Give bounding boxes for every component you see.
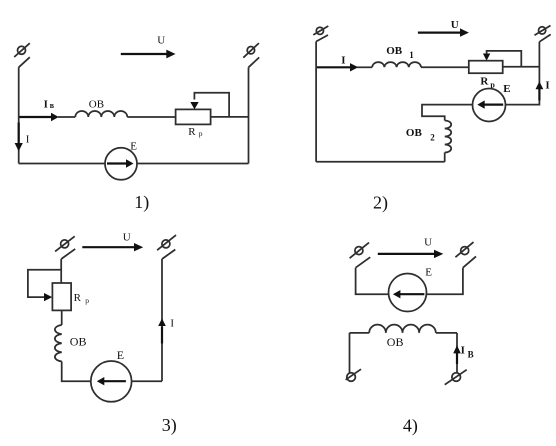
- terminal X10 (bottom-right, circle with slash): [445, 370, 467, 385]
- arrow I right c2 (upward): [538, 89, 540, 101]
- svg-text:E: E: [117, 348, 124, 362]
- svg-text:ОВ: ОВ: [406, 127, 423, 139]
- wire coil to rheostat c2: [421, 66, 469, 68]
- terminal X3 (left, circle with slash): [313, 26, 328, 35]
- generator E (armature circle with arrow): [105, 148, 137, 180]
- switch blade at X1: [19, 57, 30, 67]
- wire left branch (down from X1 to bottom-left corner): [18, 67, 20, 163]
- terminal X4 (right, circle with slash): [535, 26, 551, 36]
- svg-text:ОВ: ОВ: [387, 335, 404, 349]
- wire right branch c2: [506, 42, 540, 105]
- svg-text:р: р: [199, 129, 203, 138]
- svg-text:U: U: [157, 35, 165, 47]
- terminal X1 (left, circle with slash): [14, 43, 30, 57]
- switch blade at X4: [539, 34, 550, 41]
- wire down to terminal X10: [456, 333, 458, 373]
- svg-text:ОВ: ОВ: [70, 334, 87, 348]
- svg-text:E: E: [503, 83, 510, 95]
- svg-text:I: I: [26, 134, 30, 146]
- arrow I (downward): [18, 123, 20, 144]
- inductor ОВ c3 (vertical, 4 humps bulging left): [55, 325, 62, 361]
- wire coil to rheostat: [127, 116, 175, 118]
- wire armature to series coil ОВ2: [422, 105, 473, 121]
- switch blade at X6: [162, 250, 175, 260]
- svg-text:в: в: [50, 101, 55, 110]
- resistor Rр (rheostat body): [176, 109, 211, 124]
- wire left lead of field winding c4: [350, 332, 370, 334]
- svg-text:1: 1: [409, 50, 414, 60]
- arrow U c4: [378, 253, 435, 255]
- svg-text:I: I: [461, 344, 465, 356]
- resistor Rр c3 (vertical rheostat body): [52, 283, 71, 310]
- resistor Rр c2 (rheostat body): [469, 61, 503, 73]
- svg-text:U: U: [123, 231, 131, 243]
- svg-text:R: R: [74, 292, 82, 304]
- terminal X6 (right, circle with slash): [157, 235, 176, 250]
- svg-text:I: I: [170, 318, 174, 330]
- arrow Iв c4 (upward): [456, 353, 458, 364]
- svg-text:E: E: [425, 267, 432, 279]
- inductor ОВ2 (vertical, 4 humps bulging right): [445, 121, 452, 153]
- terminal X9 (bottom-left, circle with slash): [346, 369, 361, 381]
- generator E c3 (armature with left arrow): [91, 361, 132, 402]
- wire coil to armature c3: [62, 361, 91, 381]
- rheostat wiper arm c2: [487, 51, 522, 67]
- svg-text:2): 2): [373, 193, 388, 214]
- arrow I c3 (upward): [161, 327, 163, 344]
- arrow U c2: [418, 31, 461, 33]
- inductor ОВ1 (series winding, 4 humps): [372, 62, 421, 67]
- svg-text:I: I: [341, 54, 345, 66]
- svg-text:I: I: [44, 99, 48, 111]
- svg-text:2: 2: [430, 133, 435, 143]
- svg-text:В: В: [468, 349, 474, 359]
- wire right branch c3: [161, 259, 163, 381]
- node junction field tap: [19, 116, 20, 118]
- svg-text:ОВ: ОВ: [386, 45, 403, 57]
- terminal X8 (right, circle with slash): [455, 242, 473, 257]
- switch blade at X5: [61, 249, 75, 259]
- svg-text:E: E: [130, 140, 137, 152]
- svg-text:R: R: [188, 126, 196, 138]
- wire field to coil: [58, 116, 75, 118]
- wire left branch c2: [315, 42, 317, 162]
- inductor ОВ c4 (field winding, 4 humps): [369, 325, 436, 333]
- switch blade at X8: [463, 256, 476, 267]
- wire right branch (down from X2 to bottom-right corner): [248, 67, 250, 163]
- wire bottom right (E to corner): [137, 163, 249, 165]
- svg-text:1): 1): [134, 192, 149, 213]
- svg-text:U: U: [424, 236, 432, 248]
- terminal X7 (left, circle with slash): [350, 243, 369, 259]
- wire X8 to armature c4: [427, 268, 463, 295]
- generator E c4 (armature with left arrow): [389, 274, 427, 312]
- inductor ОВ (field winding, 4 humps): [75, 111, 127, 117]
- wire bottom c2: [316, 161, 445, 163]
- wire coil ОВ2 to bottom: [444, 153, 446, 162]
- generator E c2 (armature with left arrow): [473, 89, 506, 122]
- svg-text:U: U: [451, 19, 459, 31]
- svg-text:R: R: [480, 76, 489, 88]
- switch blade at X2: [249, 57, 260, 67]
- wire to coil ОВ1: [357, 66, 372, 68]
- arrow I c2: [317, 66, 351, 68]
- wire left branch c3: [60, 259, 62, 283]
- arrow Iв: [20, 116, 52, 118]
- svg-text:3): 3): [162, 415, 177, 436]
- terminal X5 (left, circle with slash): [55, 236, 75, 251]
- wire down to terminal X9: [349, 333, 351, 373]
- svg-text:4): 4): [403, 416, 418, 437]
- rheostat wiper arm (loop with arrow): [194, 93, 229, 117]
- rheostat wiper arm c3 (loop with arrow): [28, 270, 61, 297]
- wire rheostat to right branch c2: [503, 66, 540, 68]
- arrow U c3: [82, 246, 134, 248]
- wire right lead of field winding c4: [436, 332, 457, 334]
- svg-text:р: р: [85, 296, 89, 305]
- svg-text:I: I: [545, 80, 549, 92]
- switch blade at X7: [356, 257, 371, 268]
- svg-text:ОВ: ОВ: [89, 99, 104, 111]
- wire X7 to armature c4: [356, 268, 389, 295]
- wire armature to right branch c3: [132, 380, 162, 382]
- wire rheostat to coil c3: [61, 310, 63, 325]
- wire bottom left (corner to armature E): [19, 163, 105, 165]
- arrow U (voltage direction): [121, 53, 167, 55]
- switch blade at X3: [316, 35, 328, 42]
- wire rheostat to right branch: [211, 116, 249, 118]
- terminal X2 (right, circle with slash): [243, 43, 259, 58]
